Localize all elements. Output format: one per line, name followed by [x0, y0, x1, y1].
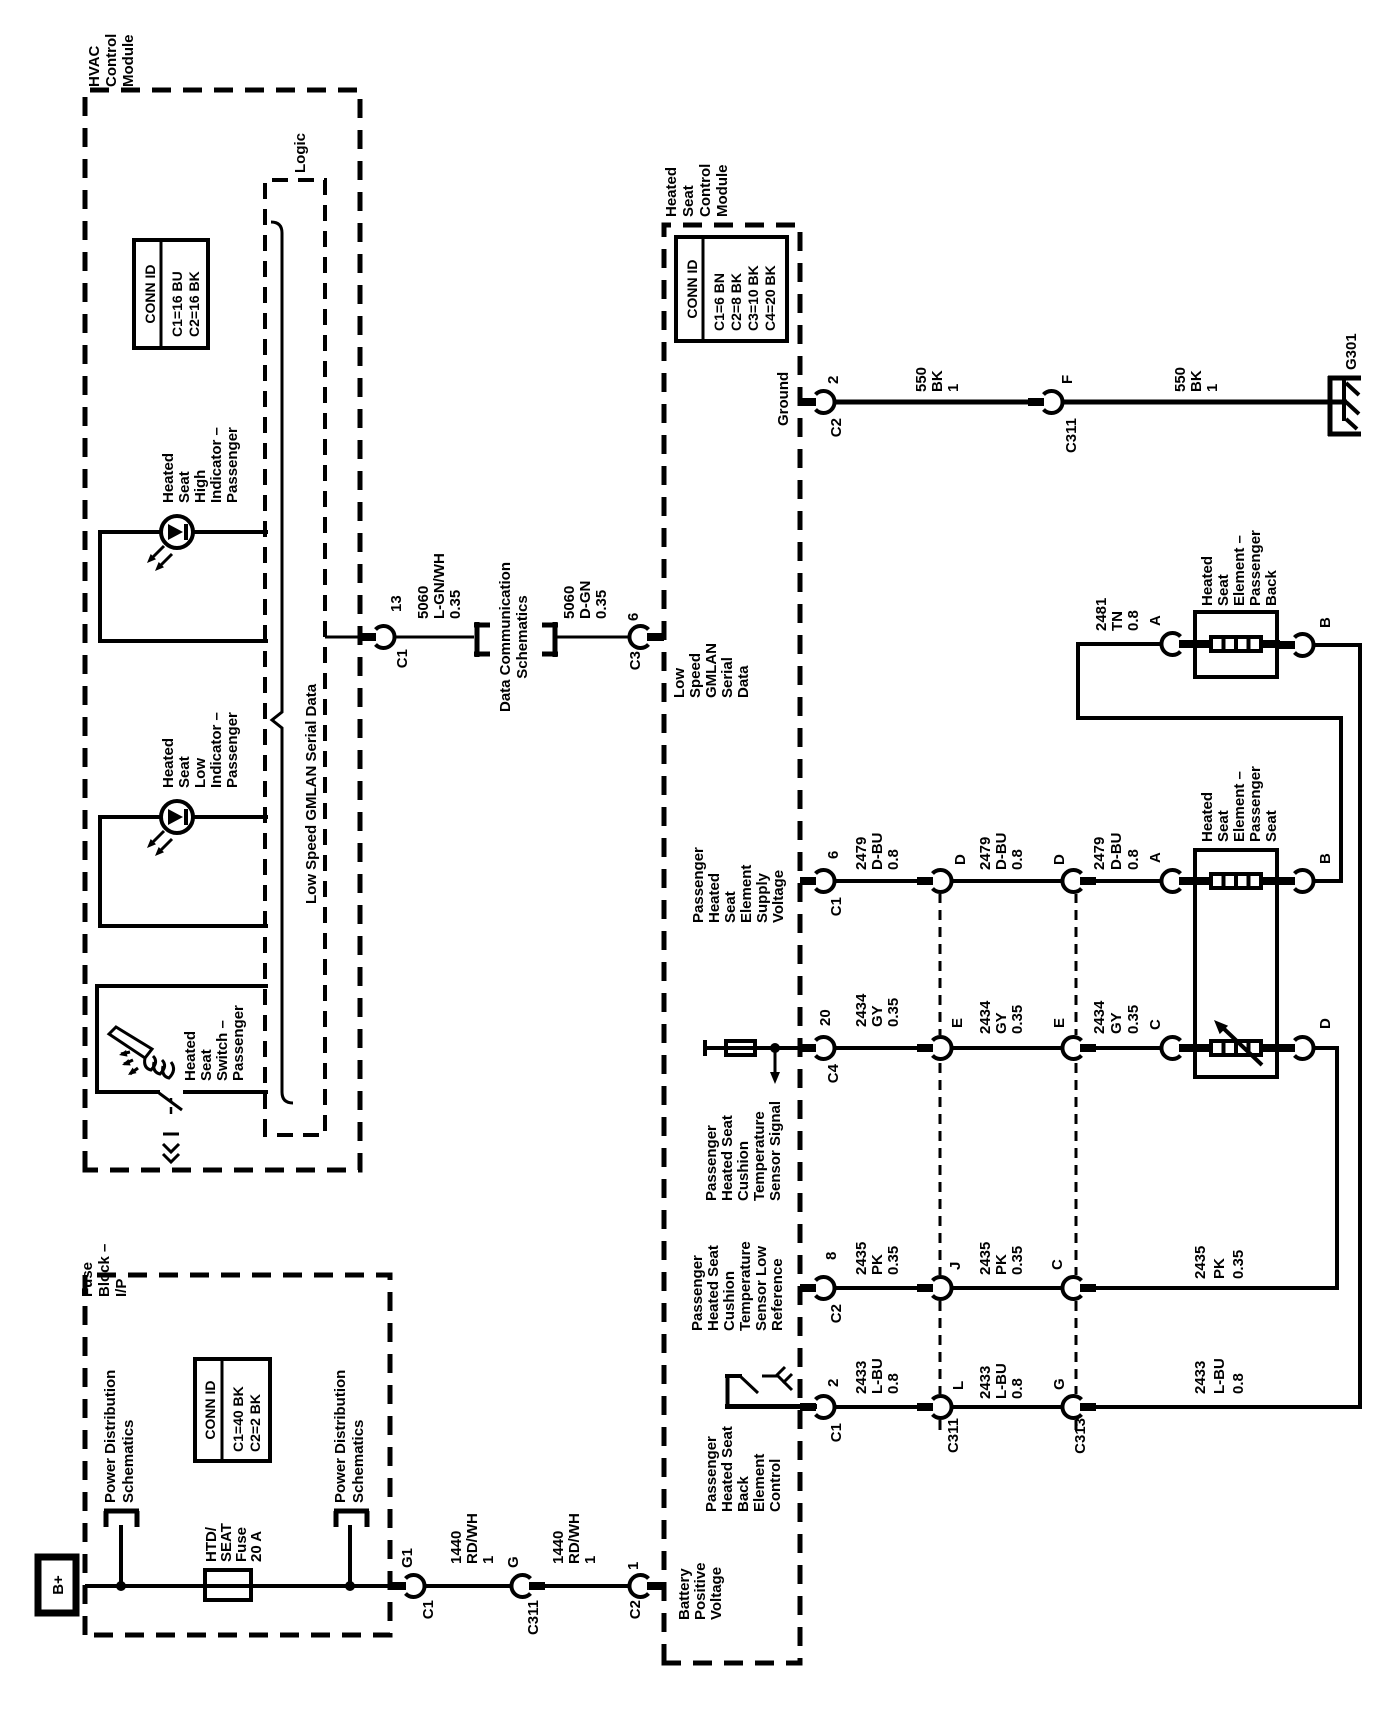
svg-text:1: 1 — [480, 1556, 497, 1564]
svg-text:C4=20 BK: C4=20 BK — [762, 265, 778, 331]
svg-text:Heated: Heated — [1199, 556, 1216, 606]
svg-text:Back: Back — [1263, 569, 1280, 606]
svg-text:Passenger: Passenger — [230, 1005, 247, 1081]
svg-text:E: E — [949, 1018, 966, 1028]
svg-text:C1=6 BN: C1=6 BN — [711, 273, 727, 331]
hand press icon — [109, 1027, 152, 1058]
off-page connector power distribution 1 — [104, 1509, 139, 1514]
svg-text:0.35: 0.35 — [1230, 1250, 1247, 1279]
svg-text:GY: GY — [1108, 1012, 1125, 1034]
connector C1 HVAC pin 13 — [360, 633, 376, 641]
svg-text:0.8: 0.8 — [1009, 849, 1026, 870]
svg-text:Passenger: Passenger — [689, 1255, 706, 1331]
svg-text:Seat: Seat — [722, 891, 739, 923]
thermistor sense resistor in module — [703, 1040, 707, 1056]
svg-text:Element: Element — [751, 1454, 768, 1512]
heated seat element passenger seat box — [1195, 850, 1277, 1077]
connector back element pin A — [1161, 633, 1180, 655]
svg-text:2479: 2479 — [977, 837, 994, 870]
svg-text:C: C — [1049, 1259, 1066, 1270]
junction node 2 — [345, 1581, 355, 1591]
svg-text:E: E — [1051, 1018, 1068, 1028]
svg-text:Element –: Element – — [1231, 771, 1248, 842]
svg-text:I/P: I/P — [113, 1279, 130, 1297]
svg-text:Passenger: Passenger — [1247, 530, 1264, 606]
svg-text:Module: Module — [120, 35, 137, 88]
svg-text:B: B — [1317, 853, 1334, 864]
junction node sensor — [770, 1043, 780, 1053]
svg-text:Seat: Seat — [1215, 574, 1232, 606]
connector seat element pin C — [1161, 1037, 1180, 1059]
svg-text:L: L — [950, 1381, 967, 1390]
svg-text:Control: Control — [103, 34, 120, 87]
svg-text:PK: PK — [993, 1254, 1010, 1275]
wire 550 BK 2 — [1062, 400, 1347, 405]
svg-text:Power Distribution: Power Distribution — [332, 1370, 349, 1503]
connector C311 pin G — [511, 1575, 530, 1597]
svg-text:Seat: Seat — [1215, 810, 1232, 842]
connector C2 module pin 2 ground — [800, 398, 816, 406]
svg-text:5060: 5060 — [415, 586, 432, 619]
svg-text:Low: Low — [671, 668, 688, 698]
svg-text:2433: 2433 — [1192, 1361, 1209, 1394]
svg-text:2481: 2481 — [1093, 598, 1110, 631]
svg-text:C2=2 BK: C2=2 BK — [247, 1394, 263, 1452]
svg-text:C2=8 BK: C2=8 BK — [728, 273, 744, 331]
wire 5060 D-GN — [555, 636, 630, 639]
svg-text:Heated: Heated — [1199, 792, 1216, 842]
svg-text:2433: 2433 — [853, 1361, 870, 1394]
svg-text:G: G — [1051, 1378, 1068, 1390]
svg-text:Indicator –: Indicator – — [208, 712, 225, 788]
svg-text:D-BU: D-BU — [993, 833, 1010, 871]
wire 2434 GY a — [834, 1046, 917, 1050]
svg-text:Supply: Supply — [754, 872, 771, 923]
svg-text:C313: C313 — [1072, 1418, 1089, 1454]
svg-text:6: 6 — [625, 613, 642, 621]
svg-text:Passenger: Passenger — [703, 1436, 720, 1512]
svg-text:0.8: 0.8 — [1125, 849, 1142, 870]
svg-text:Passenger: Passenger — [224, 427, 241, 503]
connector C313 pin G — [1062, 1396, 1081, 1418]
svg-text:Battery: Battery — [676, 1568, 693, 1620]
connector C311 pin J — [917, 1284, 933, 1292]
switch heated seat switch - passenger — [95, 986, 99, 1092]
svg-text:550: 550 — [913, 367, 930, 392]
svg-text:Heated: Heated — [706, 873, 723, 923]
HVAC control module box — [85, 90, 360, 1170]
svg-text:1: 1 — [582, 1556, 599, 1564]
wire 2479 D-BU a — [834, 879, 917, 883]
svg-text:Power Distribution: Power Distribution — [102, 1370, 119, 1503]
svg-text:1: 1 — [625, 1562, 642, 1570]
back element control switch in module — [725, 1404, 817, 1409]
svg-text:GY: GY — [993, 1012, 1010, 1034]
svg-text:Seat: Seat — [176, 756, 193, 788]
connector seat element pin B — [1279, 877, 1295, 885]
svg-text:0.8: 0.8 — [1009, 1378, 1026, 1399]
svg-text:Control: Control — [767, 1459, 784, 1512]
connector C2 module pin 1 — [629, 1575, 648, 1597]
svg-text:Element –: Element – — [1231, 535, 1248, 606]
svg-text:D: D — [1051, 854, 1068, 865]
wire 5060 L-GN/WH — [394, 636, 474, 639]
svg-text:C4: C4 — [825, 1063, 842, 1083]
svg-text:C3: C3 — [627, 651, 644, 670]
LED heated seat high indicator - passenger — [98, 532, 102, 641]
svg-text:GMLAN: GMLAN — [703, 643, 720, 698]
wire 550 BK — [834, 400, 1028, 405]
wire 2435 PK a — [834, 1286, 917, 1290]
svg-text:C1: C1 — [394, 649, 411, 668]
svg-text:0.35: 0.35 — [447, 590, 464, 619]
svg-text:Heated Seat: Heated Seat — [719, 1115, 736, 1201]
svg-text:Sensor Signal: Sensor Signal — [767, 1101, 784, 1201]
svg-text:20: 20 — [817, 1009, 834, 1026]
svg-text:0.8: 0.8 — [885, 1373, 902, 1394]
connector C1 module pin 2 — [800, 1403, 816, 1411]
connector C3 module pin 6 — [629, 626, 648, 648]
svg-text:Temperature: Temperature — [751, 1111, 768, 1201]
connector C311 pin E — [917, 1044, 933, 1052]
logic serial data bus line — [271, 222, 293, 1103]
svg-text:C1: C1 — [828, 897, 845, 916]
svg-text:Seat: Seat — [198, 1049, 215, 1081]
svg-text:Low Speed GMLAN Serial Data: Low Speed GMLAN Serial Data — [303, 683, 320, 904]
svg-text:Cushion: Cushion — [735, 1141, 752, 1201]
svg-text:Heated Seat: Heated Seat — [719, 1426, 736, 1512]
svg-text:Seat: Seat — [1263, 810, 1280, 842]
wire 2434 GY c — [1096, 1046, 1163, 1050]
connector C1 fuse block pin G1 — [390, 1582, 406, 1590]
svg-text:CONN ID: CONN ID — [684, 259, 700, 318]
svg-text:D: D — [1317, 1018, 1334, 1029]
connector C4 module pin 20 — [800, 1044, 816, 1052]
svg-text:D-GN: D-GN — [577, 581, 594, 619]
connector C311 pin D — [917, 877, 933, 885]
svg-text:CONN ID: CONN ID — [142, 264, 158, 323]
svg-text:8: 8 — [823, 1252, 840, 1260]
svg-text:1440: 1440 — [550, 1531, 567, 1564]
svg-text:G301: G301 — [1343, 333, 1360, 370]
battery positive B+ symbol — [38, 1557, 76, 1613]
connector C313 pin D — [1062, 870, 1081, 892]
svg-text:L-GN/WH: L-GN/WH — [431, 553, 448, 619]
svg-text:L-BU: L-BU — [993, 1363, 1010, 1399]
svg-text:0.35: 0.35 — [885, 1246, 902, 1275]
svg-text:Fuse: Fuse — [79, 1262, 96, 1297]
connector C2 module pin 8 — [800, 1284, 816, 1292]
wire 2479 D-BU b — [951, 879, 1063, 883]
svg-text:Temperature: Temperature — [737, 1241, 754, 1331]
wire 2433 L-BU c — [1096, 645, 1360, 1407]
svg-text:B: B — [1317, 617, 1334, 628]
wire tap to power distribution 1 — [119, 1525, 123, 1586]
connector C311 pin L — [917, 1403, 933, 1411]
connector seat element pin A — [1161, 870, 1180, 892]
wire 2434 GY b — [951, 1046, 1063, 1050]
svg-text:C1: C1 — [828, 1423, 845, 1442]
connector C1 module pin 6 — [800, 877, 816, 885]
svg-text:BK: BK — [929, 370, 946, 392]
heated seat element passenger back box — [1195, 612, 1277, 677]
svg-text:Passenger: Passenger — [703, 1125, 720, 1201]
svg-text:Data: Data — [735, 665, 752, 698]
svg-text:Positive: Positive — [692, 1562, 709, 1620]
svg-text:D-BU: D-BU — [869, 833, 886, 871]
sensor signal arrow — [774, 1048, 777, 1076]
wire 2433 L-BU a — [834, 1405, 917, 1409]
svg-text:A: A — [1147, 852, 1164, 863]
svg-text:C311: C311 — [945, 1418, 962, 1453]
svg-text:Low: Low — [192, 758, 209, 788]
svg-text:Heated: Heated — [182, 1031, 199, 1081]
svg-text:C311: C311 — [1063, 418, 1080, 453]
svg-text:Heated Seat: Heated Seat — [705, 1245, 722, 1331]
wire GMLAN from logic — [325, 636, 360, 639]
logic box — [265, 180, 325, 1135]
wire seat B to 992 riser — [1078, 644, 1341, 881]
off-page bracket data communication lower — [553, 622, 558, 657]
svg-text:RD/WH: RD/WH — [566, 1513, 583, 1564]
wire 2435 PK b — [951, 1286, 1063, 1290]
svg-text:Speed: Speed — [687, 653, 704, 698]
svg-text:1440: 1440 — [448, 1531, 465, 1564]
wire 1440 RD/WH — [424, 1584, 512, 1588]
wire 2479 D-BU c — [1096, 879, 1163, 883]
svg-text:Voltage: Voltage — [770, 870, 787, 923]
svg-text:Control: Control — [697, 164, 714, 217]
wire below fuse — [251, 1584, 390, 1588]
svg-text:Module: Module — [714, 165, 731, 218]
svg-text:13: 13 — [388, 595, 405, 612]
svg-text:2435: 2435 — [977, 1242, 994, 1275]
svg-text:Schematics: Schematics — [350, 1420, 367, 1503]
svg-text:2434: 2434 — [853, 993, 870, 1027]
svg-text:0.8: 0.8 — [885, 849, 902, 870]
module CONN ID box — [676, 237, 787, 341]
svg-text:0.8: 0.8 — [1230, 1373, 1247, 1394]
svg-text:2434: 2434 — [977, 1000, 994, 1034]
ground G301 symbol — [1328, 376, 1333, 436]
svg-text:2479: 2479 — [853, 837, 870, 870]
svg-text:HVAC: HVAC — [86, 45, 103, 87]
svg-text:2435: 2435 — [1192, 1246, 1209, 1279]
svg-text:RD/WH: RD/WH — [464, 1513, 481, 1564]
svg-text:1: 1 — [1204, 384, 1221, 392]
svg-text:Cushion: Cushion — [721, 1271, 738, 1331]
connector back element pin B — [1279, 641, 1295, 649]
svg-text:0.35: 0.35 — [1125, 1005, 1142, 1034]
seat thermistor element — [1180, 1044, 1212, 1052]
svg-text:550: 550 — [1172, 367, 1189, 392]
svg-text:0.35: 0.35 — [1009, 1005, 1026, 1034]
svg-text:GY: GY — [869, 1005, 886, 1027]
svg-text:0.35: 0.35 — [885, 998, 902, 1027]
svg-text:2435: 2435 — [853, 1242, 870, 1275]
svg-text:G1: G1 — [399, 1548, 416, 1568]
svg-text:2433: 2433 — [977, 1366, 994, 1399]
svg-text:TN: TN — [1109, 611, 1126, 631]
svg-text:L-BU: L-BU — [869, 1358, 886, 1394]
fuse block I/P box — [85, 1275, 390, 1635]
svg-text:Schematics: Schematics — [120, 1420, 137, 1503]
svg-text:C2: C2 — [828, 1304, 845, 1323]
heated seat control module box — [664, 225, 800, 1663]
svg-text:D: D — [952, 854, 969, 865]
svg-text:C2: C2 — [627, 1600, 644, 1619]
svg-text:Reference: Reference — [769, 1258, 786, 1331]
svg-text:C: C — [1147, 1019, 1164, 1030]
svg-text:C2=16 BK: C2=16 BK — [186, 271, 202, 337]
svg-text:Passenger: Passenger — [1247, 766, 1264, 842]
svg-text:Ground: Ground — [775, 372, 792, 426]
svg-text:Heated: Heated — [160, 453, 177, 503]
svg-text:BK: BK — [1188, 370, 1205, 392]
svg-text:D-BU: D-BU — [1108, 833, 1125, 871]
svg-text:C2: C2 — [828, 418, 845, 437]
LED heated seat low indicator - passenger — [98, 817, 102, 926]
svg-text:5060: 5060 — [561, 586, 578, 619]
svg-text:0.8: 0.8 — [1125, 610, 1142, 631]
svg-text:C311: C311 — [525, 1600, 542, 1635]
svg-text:1: 1 — [945, 384, 962, 392]
svg-text:G: G — [505, 1556, 522, 1568]
svg-text:PK: PK — [869, 1254, 886, 1275]
svg-text:C1=16 BU: C1=16 BU — [169, 271, 185, 337]
svg-text:Seat: Seat — [176, 471, 193, 503]
svg-text:Passenger: Passenger — [690, 847, 707, 923]
connector C311 pin F — [1028, 398, 1044, 406]
svg-text:Element: Element — [738, 865, 755, 923]
wire 2433 L-BU b — [951, 1405, 1063, 1409]
svg-text:Heated: Heated — [663, 167, 680, 217]
seat heater element — [1180, 877, 1212, 885]
connector line C311 dashed — [939, 872, 942, 1430]
back heater element — [1180, 640, 1212, 648]
svg-text:Serial: Serial — [719, 657, 736, 698]
wire battery feed — [85, 1584, 207, 1588]
svg-text:B+: B+ — [50, 1575, 67, 1595]
svg-text:Indicator –: Indicator – — [208, 427, 225, 503]
wire 1440 RD/WH 2 — [545, 1584, 630, 1588]
svg-text:2434: 2434 — [1091, 1000, 1108, 1034]
svg-text:Back: Back — [735, 1475, 752, 1512]
svg-text:Seat: Seat — [680, 185, 697, 217]
off-page bracket data communication upper — [475, 622, 480, 657]
off-page connector power distribution 2 — [334, 1509, 369, 1514]
svg-text:A: A — [1147, 615, 1164, 626]
svg-text:2: 2 — [825, 376, 842, 384]
svg-text:Schematics: Schematics — [514, 595, 531, 678]
thermistor arrow — [1221, 1026, 1262, 1065]
svg-text:J: J — [947, 1262, 964, 1270]
svg-text:F: F — [1059, 375, 1076, 384]
connector C313 pin E — [1062, 1037, 1081, 1059]
svg-text:Sensor Low: Sensor Low — [753, 1246, 770, 1331]
connector seat element pin D — [1279, 1044, 1295, 1052]
svg-text:C3=10 BK: C3=10 BK — [745, 265, 761, 331]
svg-text:20 A: 20 A — [248, 1531, 265, 1562]
connector line C313 dashed — [1075, 872, 1078, 1430]
svg-text:C1=40 BK: C1=40 BK — [230, 1386, 246, 1452]
svg-text:Switch –: Switch – — [214, 1020, 231, 1081]
wire tap to power distribution 2 — [348, 1525, 352, 1586]
switch solid-state glyph — [170, 1098, 173, 1114]
svg-text:PK: PK — [1211, 1258, 1228, 1279]
junction node — [116, 1581, 126, 1591]
svg-text:CONN ID: CONN ID — [202, 1380, 218, 1439]
svg-text:C1: C1 — [420, 1600, 437, 1619]
svg-text:High: High — [192, 470, 209, 503]
wire 2435 PK c — [1096, 1048, 1337, 1288]
svg-text:Voltage: Voltage — [708, 1567, 725, 1620]
fuse HTD/SEAT 20A — [205, 1570, 251, 1600]
svg-text:Block –: Block – — [96, 1244, 113, 1297]
svg-text:2: 2 — [825, 1379, 842, 1387]
svg-text:Heated: Heated — [160, 738, 177, 788]
svg-text:0.35: 0.35 — [1009, 1246, 1026, 1275]
fuse block CONN ID box — [195, 1359, 270, 1461]
HVAC CONN ID box — [134, 240, 208, 348]
svg-text:0.35: 0.35 — [593, 590, 610, 619]
connector C313 pin C — [1062, 1277, 1081, 1299]
svg-text:2479: 2479 — [1091, 837, 1108, 870]
svg-text:L-BU: L-BU — [1211, 1358, 1228, 1394]
svg-text:Data Communication: Data Communication — [497, 562, 514, 712]
svg-text:6: 6 — [825, 851, 842, 859]
svg-text:Logic: Logic — [292, 133, 309, 173]
svg-text:Passenger: Passenger — [224, 712, 241, 788]
